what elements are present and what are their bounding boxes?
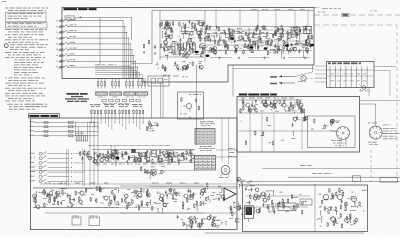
wire switch row 8 [69,60,136,62]
transistor Q7 (dark case) [310,44,314,47]
resistor (IF strip) [113,151,115,152]
capacitor (audio left) [67,193,69,195]
value label (audio left) [116,201,118,204]
capacitor (remote amp) [255,99,257,101]
terminal board columns [329,66,331,88]
resistor (audio left) [61,189,63,190]
resistor R323 [128,110,130,111]
resistor (IF strip) [99,153,101,154]
transistor (remote amp) [274,100,277,103]
wire switch matrix row 2 [34,126,98,128]
value label (predriver) [219,191,222,194]
resistor (osc Q1/Q2) [202,22,204,23]
resistor (output Q3-Q6) [274,49,276,50]
wire first row feed [74,17,132,19]
value label (audio mid) [173,198,178,201]
value label (osc Q1/Q2) [198,37,202,40]
value label (IF strip) [99,153,102,156]
resistor (IF strip) [171,158,173,159]
node (IF strip) [174,156,175,157]
value label (output coupling) [241,213,244,216]
resistor (output Q3-Q6) [257,45,259,46]
wire (remote amp) [301,110,303,114]
value label (output Q3-Q6) [310,38,313,41]
transistor (IF strip) [158,158,161,161]
resistor (osc Q1/Q2) [171,28,173,29]
transistor (remote amp) [248,109,251,112]
capacitor (IF strip) [126,151,128,153]
resistor (output coupling) [231,212,233,213]
capacitor C23 (row) [44,135,48,137]
value label (osc Q1/Q2) [179,35,181,38]
resistor (audio mid) [138,206,140,207]
transistor Q4 (dark case) [250,46,254,49]
wire (osc Q1/Q2) [182,23,184,28]
wire remote amp link [239,130,337,132]
wire (output Q3-Q6) [278,37,283,39]
resistor (drive unit) [344,202,346,203]
resistor (audio left) [54,198,56,199]
resistor R303 [100,110,102,111]
value label (output Q3-Q6) [300,42,303,45]
capacitor (output Q3-Q6) [278,47,280,49]
IF transformer T3 [112,150,119,157]
wire (output Q3-Q6) [255,33,262,35]
wire (IF strip) [135,157,137,163]
resistor (output Q3-Q6) [277,45,279,46]
transistor (remote amp) [264,103,267,106]
wire function row 1 [48,153,70,155]
transistor Q10 (dark case) [116,157,120,160]
value label (output Q3-Q6) [217,41,219,44]
resistor (IF strip) [115,150,117,151]
resistor (output Q3-Q6) [227,45,229,46]
node (IF strip) [171,156,172,157]
value label (remote amp) [281,103,284,106]
resistor (audio left) [99,187,101,188]
resistor (drive unit) [340,205,342,206]
value label (osc lower) [156,63,159,66]
value label (osc Q1/Q2) [162,46,164,49]
coil label box 2 [110,92,122,95]
resistor (bottom mid) [213,217,215,218]
wire (osc Q1/Q2) [173,40,178,42]
value label (agc) [300,111,304,114]
wire (output Q3-Q6) [293,49,295,51]
value label (output Q3-Q6) [291,36,295,39]
capacitor (audio mid) [187,189,189,191]
resistor (output Q3-Q6) [305,25,307,26]
coil sub-label 2 [112,96,118,99]
wire switch row 3 [69,31,127,33]
wire (output Q3-Q6) [282,51,284,54]
chart cell value [204,164,207,167]
resistor (remote amp) [265,100,267,101]
value label (remote amp) [271,109,273,112]
capacitor (osc Q1/Q2) [166,37,168,39]
function switch row 7 label [30,179,36,182]
value label (output Q3-Q6) [310,34,312,37]
resistor (output Q3-Q6) [277,28,279,29]
capacitor (drive left) [278,201,280,203]
transistor (predriver) [200,192,203,195]
resistor (drive unit) [330,206,332,207]
lamp label [298,80,303,83]
value label (output coupling) [234,206,238,209]
value label (osc Q1/Q2) [201,52,204,55]
capacitor (audio left) [56,195,58,197]
capacitor (osc lower) [177,67,179,69]
wire B+ rail (transmitter) [152,9,313,11]
wire trunk 2 [93,121,95,186]
value label (coupling) [148,130,151,133]
resistor (IF strip) [166,150,168,151]
wire (audio mid) [196,207,198,211]
resistor (osc Q1/Q2) [182,53,184,54]
value label (audio mid) [145,203,148,206]
node (output Q3-Q6) [293,47,294,48]
capacitor (agc) [296,116,298,118]
resistor (osc Q1/Q2) [159,23,161,24]
chart cell value [208,141,211,144]
resistor (audio left) [90,197,92,198]
value label (output coupling) [229,217,233,220]
value label (audio left) [67,205,70,208]
resistor (audio left) [111,190,113,191]
capacitor (osc Q1/Q2) [202,47,204,49]
resistor (IF strip) [128,155,130,156]
resistor (osc lower) [182,66,184,67]
wire (IF strip) [175,155,182,157]
chart cell value [204,138,206,141]
chart cell value [208,135,211,138]
wire (osc Q1/Q2) [166,55,169,57]
value label (output Q3-Q6) [243,39,247,42]
value label (osc Q1/Q2) [197,23,199,26]
bias network group 4 label [132,103,137,106]
value label (osc lower) [163,67,165,70]
wire (output Q3-Q6) [295,41,297,44]
resistor (audio mid) [192,194,194,195]
remote amp stage labels [241,97,245,100]
wire (IF strip) [142,156,148,158]
value label (remote amp) [294,101,297,104]
value label (output coupling) [228,207,232,210]
resistor (IF strip) [110,154,112,155]
resistor (output Q3-Q6) [247,35,249,36]
transformer T2 [304,27,312,34]
capacitor (output Q3-Q6) [305,26,307,28]
capacitor (drive lower) [335,219,337,221]
wire (drive unit) [351,205,358,207]
value label (osc Q1/Q2) [176,44,178,47]
resistor (predriver) [205,197,207,198]
transistor (audio mid) [134,190,137,193]
wire (osc Q1/Q2) [202,24,204,28]
wire (output Q3-Q6) [306,29,308,35]
wire (volume) [90,157,94,159]
value label (bottom mid) [184,223,187,226]
wire (osc Q1/Q2) [186,33,190,35]
capacitor (osc Q1/Q2) [198,33,200,35]
node (osc lower) [180,69,181,70]
capacitor (audio mid) [147,194,149,196]
capacitor (volume) [81,156,83,158]
notes lines 3 [5,77,7,80]
resistor (audio left) [108,202,110,203]
wire (detector) [149,174,151,180]
wire (output Q3-Q6) [296,42,303,44]
wire interconnect vertical A [196,65,198,145]
resistor (output Q3-Q6) [296,31,298,34]
node (audio mid) [167,198,168,199]
wire (output Q3-Q6) [302,52,304,58]
capacitor (IF strip) [186,156,188,158]
wire speaker lead [220,174,223,177]
IF transformer T5 [151,150,157,156]
switch S3 number [56,31,58,34]
resistor (IF strip) [167,154,169,155]
value label (IF strip) [169,158,173,161]
value label (driver) [247,182,251,185]
value label (drive unit) [340,189,343,192]
node (audio left) [82,204,83,205]
top value labels [251,8,257,11]
value label (output coupling) [238,208,242,211]
wire (drive unit) [354,203,356,207]
resistor (audio mid) [124,198,126,199]
resistor (output Q3-Q6) [305,47,307,48]
switch matrix row 2 label [30,125,35,128]
wire (drive unit) [335,212,337,215]
bus labels [95,63,100,66]
tube socket V1 pin 6 [339,127,342,129]
resistor (remote amp) [298,105,300,106]
tube socket V1 pin 8 [347,129,349,132]
value label (predriver) [211,194,214,197]
switch S2 (transmitter key) [59,25,61,27]
resistor (audio left) [48,194,50,195]
value label (osc Q1/Q2) [190,48,192,51]
switch S9 (transmitter key) [59,66,61,68]
resistor (drive lower) [341,223,343,224]
value label (relay) [327,125,329,128]
wire staircase bus lines [95,65,130,67]
resistor (audio left) [54,196,56,197]
value label (output Q3-Q6) [254,45,256,48]
node (osc Q1/Q2) [185,28,186,29]
capacitor (output Q3-Q6) [255,28,257,30]
value label (drive unit) [333,209,335,212]
resistor (bottom mid) [211,222,213,223]
wire switch row 2 drop [124,27,126,79]
value label (osc lower) [165,67,167,70]
resistor (output Q3-Q6) [206,25,208,26]
bias network group 3 label [118,103,120,106]
resistor (volume) [86,153,88,154]
node (audio mid) [131,199,132,200]
resistor (audio left) [43,189,45,190]
wire bias drop [94,115,96,127]
node (remote amp) [254,110,255,111]
relay contact labels [331,139,336,142]
switch S7 number [56,54,58,57]
value label (audio mid) [143,191,145,194]
wire (drive left) [268,194,270,199]
wire function row 2 [48,157,70,159]
wire (output Q3-Q6) [204,37,208,39]
resistor (output Q3-Q6) [289,48,291,49]
wire output Q3-Q6 rail [204,26,312,28]
wire (output coupling) [233,202,235,208]
value label (drive unit) [363,210,365,213]
value label (IF strip) [108,160,110,163]
node (osc Q1/Q2) [186,46,187,47]
notes indented sub-list [14,59,17,62]
wire (drive lower) [331,217,336,219]
wire rail drop [275,10,277,26]
microphone input MIC1 [33,194,37,198]
value label (remote amp) [260,102,264,105]
node (output Q3-Q6) [290,44,291,45]
resistor (relay) [313,119,315,120]
value label (audio left) [62,199,65,202]
wire function row 1 extension [73,153,84,155]
value label (output Q3-Q6) [241,35,243,38]
wire audio mid rail [120,212,204,214]
resistor (audio left) [95,198,97,199]
switch matrix row 3 label [30,129,35,132]
wire (osc Q1/Q2) [195,51,200,53]
wire (osc Q1/Q2) [185,26,191,28]
resistor (output Q3-Q6) [249,39,251,40]
transistor (output Q3-Q6) [213,51,216,54]
resistor R320 [119,110,121,111]
resistor (predriver) [223,197,225,198]
resistor (audio mid) [175,192,177,193]
output transformer T7 (dark) [246,207,253,215]
wire (drive left) [268,206,270,212]
value label (output Q3-Q6) [241,51,243,54]
matrix second row [102,99,106,102]
switch S6 label [70,47,72,50]
value label (audio mid) [172,193,177,196]
value label (drive unit) [350,196,353,199]
value label (IF strip) [154,156,156,159]
capacitor (audio left) [114,195,116,197]
value label (audio left) [95,199,97,202]
wire transmitter to arrows [312,65,314,72]
capacitor (drive left) [267,205,269,207]
resistor (osc Q1/Q2) [192,49,194,50]
chart cell value [208,164,211,167]
wire bus to oscillator [132,63,152,65]
microphone components [181,97,183,98]
drive unit box outline [243,185,368,232]
IF transformer T4 [132,149,136,152]
resistor (remote amp) [255,108,257,109]
resistor (output Q3-Q6) [223,39,225,40]
value label (volume) [84,150,86,153]
capacitor (output Q3-Q6) [253,31,255,33]
wire (output Q3-Q6) [214,36,216,39]
chart cell value [212,161,214,164]
value label (drive left) [262,197,265,200]
wire (output Q3-Q6) [267,41,269,48]
value label (audio left) [43,197,47,200]
chart cell value [196,132,199,135]
capacitor (output Q3-Q6) [298,49,300,51]
resistor (IF strip) [171,157,173,158]
value label (remote amp) [291,105,293,108]
node (IF strip) [101,157,102,158]
transistor Q9 (microphone) [186,103,191,108]
wire speaker feed 2 [228,118,230,164]
resistor (osc Q1/Q2) [170,27,172,28]
value label (output Q3-Q6) [221,31,224,34]
wire (osc Q1/Q2) [162,32,164,39]
resistor R21 (row) [69,126,74,128]
transistor (audio mid) [163,203,166,206]
transformer T1 [291,28,300,35]
value label (remote amp) [260,110,264,113]
resistor (output Q3-Q6) [283,40,285,41]
chart cell value [199,161,201,164]
value label (osc Q1/Q2) [180,30,182,33]
resistor (output Q3-Q6) [307,47,309,48]
value label (drive left) [285,210,289,213]
value label (osc Q1/Q2) [201,37,203,40]
value label (output Q3-Q6) [223,29,225,32]
resistor (IF strip) [140,157,142,158]
value label (osc Q1/Q2) [171,45,174,48]
resistor (output Q3-Q6) [235,47,237,48]
value label (osc Q1/Q2) [165,49,169,52]
wire box to V2 [360,100,400,102]
wire (bottom mid) [198,223,200,227]
transistor Q102 [264,103,268,107]
wire lower trunk 2 [68,149,70,186]
chart cell value [208,161,210,164]
wire rail drop [257,10,259,26]
resistor (output Q3-Q6) [210,47,212,48]
resistor (output Q3-Q6) [280,33,282,34]
wire (output Q3-Q6) [266,37,271,39]
transistor (output Q3-Q6) [213,47,216,50]
resistor (audio mid) [182,205,184,206]
value label (drive left) [246,201,248,204]
capacitor (IF strip) [146,149,148,151]
transistor Q12 [56,191,60,195]
wire function row 3 extension [73,162,84,164]
wire (audio left) [86,188,92,190]
resistor (bottom mid) [212,218,214,219]
switch S4 label [70,35,72,38]
resistor (output Q3-Q6) [225,41,227,42]
wire bias drop [136,115,138,127]
wire (audio mid) [164,206,167,208]
value label (output coupling) [237,218,241,221]
transistor (bottom mid) [189,217,192,220]
value label (remote amp) [274,105,276,108]
wire (audio mid) [132,192,137,194]
value label (IF strip) [166,153,168,156]
capacitor (output Q3-Q6) [234,49,236,51]
wire (osc Q1/Q2) [169,51,175,53]
value label (output Q3-Q6) [211,35,215,38]
value label (volume) [85,153,87,156]
resistor (remote amp) [283,99,285,100]
